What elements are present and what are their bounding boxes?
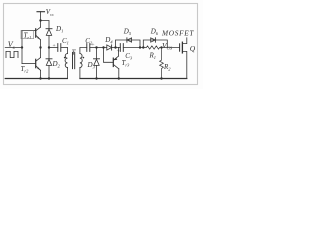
svg-text:+: + <box>117 49 120 55</box>
wire Tr3 emitter up <box>118 48 120 57</box>
wire base rail vertical <box>21 31 23 64</box>
node Tr3 on rail <box>118 77 120 79</box>
wire block1 top branch <box>116 40 141 48</box>
wire Tr1 emitter to output node <box>40 40 42 48</box>
wire Tr2 emitter to ground rail <box>40 70 42 78</box>
svg-text:D3: D3 <box>87 61 96 70</box>
svg-text:R1: R1 <box>149 52 156 61</box>
node block2 left <box>142 46 144 48</box>
capacitor C2 <box>86 44 88 52</box>
diode D3 <box>96 48 98 59</box>
node D3 on rail <box>95 77 97 79</box>
wire Tr2 base <box>22 63 36 65</box>
svg-text:Vcc: Vcc <box>46 8 54 17</box>
diode D6 <box>151 38 156 42</box>
svg-text:Q: Q <box>190 44 196 53</box>
diode D2 <box>48 48 50 59</box>
transistor Tr2 <box>35 59 37 67</box>
wire gate <box>162 47 180 49</box>
wire Vcc node to D1 <box>41 21 50 29</box>
node base junction <box>21 46 23 48</box>
wire Tr3 base <box>104 48 114 63</box>
resistor R2 <box>160 48 164 79</box>
diode D1 <box>46 28 52 30</box>
svg-text:C1: C1 <box>62 37 69 46</box>
source Vs square wave symbol <box>6 51 18 57</box>
svg-text:Tr3: Tr3 <box>122 59 131 68</box>
svg-text:C3: C3 <box>125 52 133 61</box>
wire output node to C1 <box>49 47 58 49</box>
svg-text:T: T <box>72 49 77 56</box>
node R2 on rail <box>160 77 162 79</box>
wire D3 node to Tr3 base node <box>97 47 104 49</box>
node block1 right <box>139 46 141 48</box>
svg-text:D2: D2 <box>52 60 61 69</box>
wire D1 anode down <box>48 35 50 47</box>
svg-text:D1: D1 <box>55 25 63 34</box>
svg-text:MOSFET: MOSFET <box>161 28 194 37</box>
wire Vs to base node <box>5 47 22 49</box>
polarity dot primary <box>64 57 66 59</box>
box around Tr1 label <box>21 30 34 38</box>
ground rail right <box>80 78 187 80</box>
wire primary bottom to rail <box>66 68 68 79</box>
wire Vcc stem <box>40 12 42 21</box>
transformer T primary lead <box>66 48 68 54</box>
wire Tr2 collector to output node <box>40 48 42 58</box>
transformer core <box>72 52 74 68</box>
node R2 junction <box>160 46 162 48</box>
node block1 left <box>114 46 116 48</box>
node D3 junction <box>95 46 97 48</box>
svg-text:D4: D4 <box>104 36 113 45</box>
svg-text:R2: R2 <box>163 63 171 72</box>
resistor R1 <box>143 46 161 49</box>
node totem output <box>39 46 41 48</box>
capacitor C1 <box>57 44 59 52</box>
svg-text:Vs: Vs <box>8 40 15 51</box>
transformer T secondary winding <box>80 54 82 68</box>
wire Tr3 collector down <box>118 69 120 79</box>
wire secondary bottom to rail <box>79 68 81 79</box>
node Tr2 emitter on rail <box>39 77 41 79</box>
diode D5 <box>126 38 128 42</box>
svg-text:Tr2: Tr2 <box>21 65 30 74</box>
wire to block2 <box>140 47 143 49</box>
ground rail left <box>5 78 67 80</box>
diode D4 <box>104 47 107 49</box>
svg-text:+: + <box>53 43 56 49</box>
polarity dot secondary <box>83 57 85 59</box>
capacitor C3 <box>116 47 121 49</box>
wire block2 top branch <box>143 40 167 48</box>
transistor Tr3 <box>112 58 114 66</box>
svg-text:C2: C2 <box>85 37 93 46</box>
wire secondary top lead <box>80 48 87 54</box>
wire Tr1 collector <box>40 21 42 28</box>
Vcc supply bar <box>37 11 45 13</box>
wire Tr1 base <box>22 30 36 32</box>
transformer T primary winding <box>65 54 67 68</box>
MOSFET Q <box>179 44 181 51</box>
node Vcc junction <box>39 19 41 21</box>
svg-text:D6: D6 <box>150 28 159 37</box>
node D2 anode on rail <box>48 77 50 79</box>
transistor Tr1 <box>35 29 37 37</box>
svg-text:D5: D5 <box>123 28 132 37</box>
node Tr3 base takeoff <box>102 46 104 48</box>
node D1 anode junction <box>48 46 50 48</box>
border frame <box>4 4 198 85</box>
